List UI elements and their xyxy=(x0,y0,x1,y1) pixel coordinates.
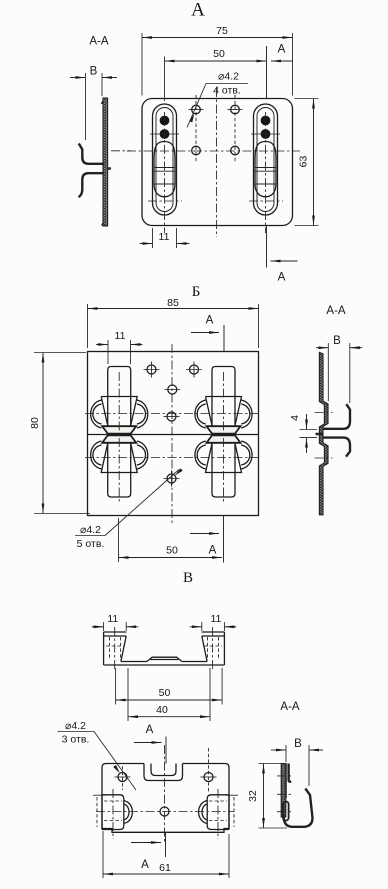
slots horizontal centerline xyxy=(96,811,234,813)
rail with clips (right) xyxy=(195,367,252,503)
svg-text:5 отв.: 5 отв. xyxy=(77,538,105,550)
hole B center-1 xyxy=(168,385,177,394)
lower clip flare xyxy=(102,435,136,442)
clip dome and body xyxy=(154,142,175,185)
svg-text:А: А xyxy=(191,0,205,21)
svg-text:А-А: А-А xyxy=(280,701,300,713)
hole mid-left xyxy=(192,146,201,155)
svg-text:50: 50 xyxy=(213,48,225,60)
cross-section clip upper prong xyxy=(79,144,104,164)
side slot right ticks xyxy=(225,794,238,796)
svg-text:А: А xyxy=(278,44,286,56)
slot with spring clip (right) xyxy=(249,104,283,233)
lower clips centerline xyxy=(85,457,262,459)
hole B top-right xyxy=(190,365,199,374)
svg-text:А: А xyxy=(206,315,214,327)
hole B center-2 xyxy=(167,412,176,421)
svg-text:4: 4 xyxy=(289,415,301,421)
dot tick xyxy=(150,133,179,135)
plate vertical axis (V) xyxy=(164,745,166,843)
plate vertical axis (dashed) xyxy=(216,88,218,237)
profile centerline ticks xyxy=(277,776,293,812)
svg-text:50: 50 xyxy=(159,687,171,699)
upper clip trapezoid xyxy=(101,397,137,426)
svg-text:85: 85 xyxy=(167,297,179,309)
plate bar with embossed bumps (B cross-section) xyxy=(319,352,328,514)
top notch tab xyxy=(151,764,176,776)
svg-text:4 отв.: 4 отв. xyxy=(213,85,241,97)
left leg xyxy=(104,632,127,665)
J-profile body (V cross-section) xyxy=(281,764,286,818)
main plate of bracket A (rounded rectangle 75x63) xyxy=(142,99,293,226)
cross-section clip nub xyxy=(108,167,111,169)
svg-text:⌀4.2: ⌀4.2 xyxy=(218,71,239,83)
slot vertical axes xyxy=(113,789,218,839)
clip lower dome xyxy=(154,184,175,197)
side clip bulge (edge view) xyxy=(283,802,289,821)
upper clip left ear xyxy=(91,400,102,428)
side slot right hidden lines xyxy=(209,797,234,827)
lower clip left ear xyxy=(91,441,102,469)
main view plate (V) xyxy=(102,764,229,833)
clip arm upper (B cross-section) xyxy=(316,404,351,434)
hole column axes xyxy=(196,95,235,163)
slot with spring clip (left) xyxy=(148,104,182,233)
centerline tick between views xyxy=(111,150,131,152)
plate of bracket B (85x80) xyxy=(88,352,259,516)
side slot left ticks xyxy=(93,794,106,796)
svg-text:⌀4.2: ⌀4.2 xyxy=(65,720,86,732)
svg-text:80: 80 xyxy=(29,417,41,429)
svg-text:50: 50 xyxy=(166,545,178,557)
svg-text:⌀4.2: ⌀4.2 xyxy=(80,524,101,536)
hole V top-right xyxy=(204,773,213,782)
hole top-left xyxy=(192,105,201,114)
plate mid bend line xyxy=(88,434,259,436)
svg-text:В: В xyxy=(333,335,341,347)
clip arm lower (B cross-section) xyxy=(323,438,350,457)
svg-text:11: 11 xyxy=(115,330,126,342)
side slot left (V) xyxy=(102,795,124,830)
side slot left hidden lines xyxy=(97,797,122,827)
leg axes xyxy=(115,627,213,671)
upper clips centerline xyxy=(85,413,262,415)
top channel fold xyxy=(289,764,292,782)
J-profile inner face xyxy=(285,764,287,799)
side slot left D-ear xyxy=(124,801,133,824)
svg-text:3 отв.: 3 отв. xyxy=(62,734,90,746)
upper clip flare xyxy=(102,426,136,433)
rail strip xyxy=(108,367,131,498)
svg-text:32: 32 xyxy=(247,790,259,802)
bump centerline ticks xyxy=(315,413,333,459)
base bump xyxy=(147,657,182,661)
svg-text:А-А: А-А xyxy=(89,36,109,48)
hole V top-left xyxy=(118,773,127,782)
rail axis xyxy=(118,372,120,502)
svg-text:11: 11 xyxy=(159,231,170,243)
upper clip right ear xyxy=(137,400,148,428)
slot vertical axis xyxy=(164,112,166,233)
cross-section A-A plate bar (hatched) xyxy=(103,98,108,226)
hole B top-left xyxy=(147,365,156,374)
lower clip trapezoid xyxy=(101,444,137,473)
hole mid-right xyxy=(231,146,240,155)
svg-text:Б: Б xyxy=(192,284,201,300)
svg-text:В: В xyxy=(90,66,98,78)
slot outer stadium xyxy=(153,104,177,215)
svg-text:40: 40 xyxy=(156,704,168,716)
hole V center xyxy=(160,807,169,816)
svg-text:75: 75 xyxy=(216,25,228,37)
side slot right D-ear xyxy=(199,801,208,824)
hole B lower xyxy=(167,474,176,483)
svg-text:А: А xyxy=(146,724,154,736)
slot inner stadium xyxy=(156,108,173,212)
base lines xyxy=(104,662,225,666)
right leg xyxy=(202,632,225,665)
svg-text:В: В xyxy=(294,738,302,750)
svg-text:А: А xyxy=(141,859,149,871)
rail with clips (left) xyxy=(91,367,148,503)
weld dot 2 xyxy=(160,129,170,139)
slot lower tick xyxy=(148,200,182,202)
svg-text:А-А: А-А xyxy=(326,305,346,317)
lower clip right ear xyxy=(137,441,148,469)
top notch outer xyxy=(144,764,183,781)
weld dot 1 xyxy=(160,116,170,126)
svg-text:А: А xyxy=(209,545,217,557)
cross-section clip lower prong xyxy=(79,173,104,197)
svg-text:А: А xyxy=(278,272,286,284)
svg-text:61: 61 xyxy=(159,862,171,874)
plate horizontal centerline xyxy=(127,150,300,152)
svg-text:63: 63 xyxy=(298,156,310,168)
side slot right (V) xyxy=(207,795,229,830)
svg-text:11: 11 xyxy=(210,613,221,625)
svg-text:11: 11 xyxy=(107,613,118,625)
leg hidden lines xyxy=(106,637,222,660)
svg-text:В: В xyxy=(183,570,193,586)
plate vertical axis xyxy=(171,344,173,523)
hole top-right xyxy=(231,105,240,114)
